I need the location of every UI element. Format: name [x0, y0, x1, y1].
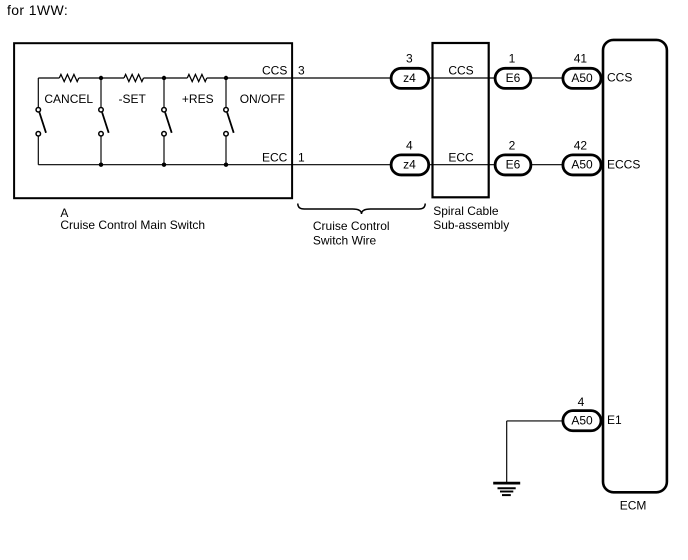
node junction top RES	[162, 76, 166, 80]
svg-text:z4: z4	[403, 158, 416, 172]
switch RES branch wire top	[163, 78, 165, 107]
svg-text:-SET: -SET	[119, 92, 147, 106]
switch ONOFF top contact	[224, 108, 229, 113]
spiral cable sub-assembly box	[433, 43, 489, 197]
svg-text:ECC: ECC	[448, 151, 474, 165]
connector z4 pin4 oval	[391, 155, 429, 175]
svg-text:ON/OFF: ON/OFF	[240, 92, 285, 106]
ground symbol bar1	[493, 482, 520, 485]
switch SET top contact	[99, 108, 104, 113]
svg-text:E6: E6	[506, 158, 521, 172]
svg-text:Cruise Control: Cruise Control	[313, 219, 390, 233]
switch SET branch wire top	[100, 78, 102, 107]
switch CANCEL blade	[39, 112, 46, 132]
connector A50 pin42 oval	[563, 155, 601, 175]
switch RES top contact	[162, 108, 167, 113]
svg-text:E6: E6	[506, 71, 521, 85]
wire CCS through spiral cable	[429, 77, 494, 79]
ECM box U1	[603, 40, 667, 492]
wire E6 to A50 row2	[531, 164, 564, 166]
switch SET bottom contact	[99, 131, 104, 136]
brace cruise control switch wire	[298, 204, 425, 215]
svg-text:3: 3	[406, 51, 413, 65]
wire A50 pin4 to ground horizontal	[507, 420, 564, 422]
switch ONOFF branch wire top	[225, 78, 227, 107]
wire ground drop vertical	[506, 421, 508, 482]
node junction bottom RES	[162, 163, 166, 167]
connector A50 pin4 oval	[563, 411, 601, 431]
wire E6 to A50 row1	[531, 77, 564, 79]
switch RES bottom contact	[162, 131, 167, 136]
switch CANCEL branch wire top	[37, 78, 39, 107]
svg-text:A50: A50	[571, 414, 593, 428]
switch ONOFF bottom contact	[224, 131, 229, 136]
svg-text:ECC: ECC	[262, 151, 288, 165]
svg-text:Cruise Control Main Switch: Cruise Control Main Switch	[60, 218, 205, 232]
svg-text:A50: A50	[571, 71, 593, 85]
resistor R-res	[187, 74, 207, 81]
switch CANCEL branch wire bottom	[37, 136, 39, 164]
switch SET branch wire bottom	[100, 136, 102, 164]
ground symbol bar2	[498, 487, 516, 489]
switch CANCEL bottom contact	[36, 131, 41, 136]
node junction top ONOFF	[224, 76, 228, 80]
svg-text:E1: E1	[607, 413, 622, 427]
wire CCS bus segment 1	[38, 77, 59, 79]
node junction top SET	[99, 76, 103, 80]
wire ECC bus	[38, 164, 294, 166]
svg-text:4: 4	[406, 138, 413, 152]
svg-text:A50: A50	[571, 158, 593, 172]
svg-text:CCS: CCS	[448, 64, 473, 78]
connector E6 pin1 oval	[495, 68, 531, 88]
switch ONOFF branch wire bottom	[225, 136, 227, 164]
wire ECC box to z4	[294, 164, 390, 166]
connector E6 pin2 oval	[495, 155, 531, 175]
wire CCS box to z4	[294, 77, 390, 79]
svg-text:Sub-assembly: Sub-assembly	[433, 218, 509, 232]
svg-text:CCS: CCS	[262, 64, 287, 78]
svg-text:4: 4	[578, 395, 585, 409]
wire CCS bus segment 3	[144, 77, 188, 79]
wire ECC through spiral cable	[429, 164, 494, 166]
wire CCS bus segment 2	[79, 77, 124, 79]
svg-text:42: 42	[574, 138, 588, 152]
svg-text:1: 1	[509, 51, 516, 65]
svg-text:2: 2	[509, 138, 516, 152]
svg-text:3: 3	[298, 64, 305, 78]
svg-text:1: 1	[298, 151, 305, 165]
svg-text:ECCS: ECCS	[607, 157, 640, 171]
svg-text:+RES: +RES	[182, 92, 214, 106]
svg-text:for 1WW:: for 1WW:	[7, 2, 68, 18]
svg-text:41: 41	[574, 51, 588, 65]
resistor R-cancel	[59, 74, 79, 81]
connector z4 pin3 oval	[391, 68, 429, 88]
connector A50 pin41 oval	[563, 68, 601, 88]
ground symbol bar3	[500, 491, 513, 493]
svg-text:CANCEL: CANCEL	[44, 92, 93, 106]
switch RES blade	[165, 112, 172, 132]
node junction bottom SET	[99, 163, 103, 167]
switch SET blade	[102, 112, 109, 132]
cruise control main switch box A	[14, 43, 292, 198]
switch CANCEL top contact	[36, 108, 41, 113]
node junction bottom ONOFF	[224, 163, 228, 167]
wire CCS bus segment 4	[207, 77, 294, 79]
svg-text:z4: z4	[403, 71, 416, 85]
svg-text:ECM: ECM	[620, 498, 647, 512]
ground symbol bar4	[502, 494, 511, 496]
switch RES branch wire bottom	[163, 136, 165, 164]
svg-text:CCS: CCS	[607, 71, 632, 85]
svg-text:Spiral Cable: Spiral Cable	[433, 204, 499, 218]
resistor R-set	[124, 74, 144, 81]
svg-text:Switch Wire: Switch Wire	[313, 234, 377, 248]
switch ONOFF blade	[227, 112, 234, 132]
